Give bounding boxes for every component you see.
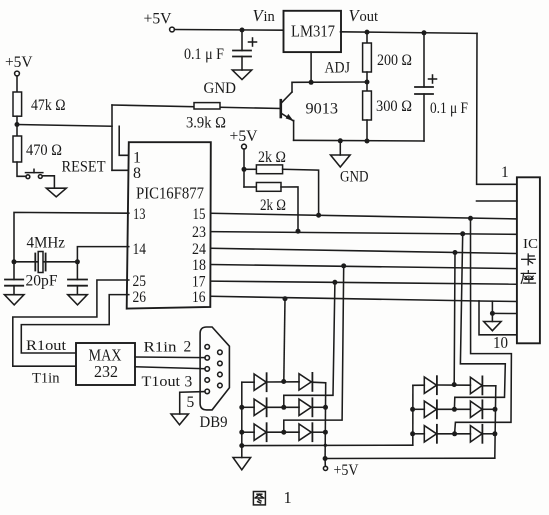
wire line15 wrap to right diode row3 xyxy=(455,218,512,433)
wire vertical B to pin1 xyxy=(119,126,129,155)
hanzi 座 xyxy=(521,271,535,284)
svg-text:9013: 9013 xyxy=(306,101,339,118)
node xyxy=(12,259,17,264)
wire left rail xyxy=(412,385,414,445)
wire xyxy=(17,162,26,176)
node xyxy=(490,311,495,316)
svg-text:17: 17 xyxy=(192,274,206,291)
node xyxy=(332,280,337,285)
node xyxy=(242,167,247,172)
wire row1 xyxy=(413,384,424,386)
diode D1 xyxy=(254,374,266,390)
wire Vout rail xyxy=(341,32,478,34)
connector J2 DB9 xyxy=(200,327,229,410)
ic U3 MAX232 xyxy=(76,343,135,385)
node xyxy=(281,405,286,410)
svg-text:1: 1 xyxy=(284,488,292,507)
wire row3 xyxy=(413,433,425,435)
svg-text:in: in xyxy=(264,9,276,25)
diode D7 xyxy=(424,377,436,393)
node xyxy=(460,231,465,236)
svg-text:15: 15 xyxy=(193,206,206,223)
diode D5 xyxy=(254,424,266,440)
wire line pin18 xyxy=(211,265,517,269)
resistor R5 300Ω xyxy=(363,91,372,120)
wire pin16 to socket xyxy=(479,300,517,303)
wire emitter ground rail xyxy=(294,139,424,142)
wire row3 xyxy=(242,431,254,433)
hanzi 卡 xyxy=(522,254,536,265)
svg-text:14: 14 xyxy=(133,241,147,258)
svg-text:3.9k Ω: 3.9k Ω xyxy=(186,115,226,132)
node xyxy=(452,431,457,436)
wire pin14 xyxy=(77,247,128,262)
resistor R3 3.9kΩ xyxy=(194,103,220,109)
ground xyxy=(171,414,188,425)
svg-text:T1out: T1out xyxy=(142,374,181,390)
node crossing blob xyxy=(324,444,327,447)
diode D2 xyxy=(299,374,311,390)
svg-text:2: 2 xyxy=(184,339,192,356)
node xyxy=(452,382,457,387)
svg-text:GND: GND xyxy=(204,80,237,97)
node xyxy=(323,405,328,410)
node xyxy=(75,259,80,264)
svg-text:IC: IC xyxy=(523,237,538,252)
wire line23 wrap to right diode row2 xyxy=(454,234,505,409)
svg-text:0.1 μ F: 0.1 μ F xyxy=(430,100,468,117)
diode D4 xyxy=(299,399,311,415)
svg-text:5: 5 xyxy=(187,394,195,411)
node xyxy=(492,431,497,436)
wire left rail xyxy=(241,382,243,445)
node xyxy=(410,407,415,412)
svg-text:232: 232 xyxy=(94,362,118,381)
wire to socket gnd pin xyxy=(492,312,517,314)
wire row2 xyxy=(413,408,425,410)
svg-text:16: 16 xyxy=(192,289,206,306)
node xyxy=(239,443,244,448)
ground xyxy=(4,295,24,305)
node xyxy=(323,430,328,435)
svg-text:ADJ: ADJ xyxy=(325,60,351,77)
svg-text:25: 25 xyxy=(133,273,147,290)
svg-text:23: 23 xyxy=(192,224,206,241)
node junction xyxy=(15,122,20,127)
diode D10 xyxy=(470,401,482,417)
svg-text:LM317: LM317 xyxy=(291,22,335,41)
wire row1 xyxy=(242,381,254,383)
wire line17 wrap to left diode row2 xyxy=(284,282,335,407)
ground xyxy=(46,188,66,197)
wire crystal net xyxy=(14,261,77,263)
svg-text:10: 10 xyxy=(493,333,508,352)
node xyxy=(468,216,473,221)
node xyxy=(410,431,415,436)
svg-text:8: 8 xyxy=(133,165,141,182)
ground xyxy=(491,313,493,321)
svg-text:1: 1 xyxy=(133,150,141,167)
wire DB9 pin5 to ground xyxy=(180,392,205,414)
node xyxy=(240,28,245,33)
svg-text:2k Ω: 2k Ω xyxy=(258,149,286,166)
node ADJ junction xyxy=(365,80,370,85)
diode D9 xyxy=(424,401,436,417)
wire xyxy=(42,176,54,188)
node xyxy=(341,263,346,268)
svg-text:18: 18 xyxy=(192,257,206,274)
node +5V terminal bottom xyxy=(324,459,326,467)
wire gnd tee xyxy=(491,301,493,313)
node xyxy=(323,456,328,461)
wire line16 drop to left diode row1 xyxy=(284,299,285,382)
svg-text:2k Ω: 2k Ω xyxy=(260,197,286,214)
node xyxy=(239,430,244,435)
node xyxy=(281,430,286,435)
wire line24 drop to right diode row1 xyxy=(453,253,456,385)
crystal X1 4MHz xyxy=(34,254,36,271)
diode D8 xyxy=(470,377,482,393)
switch S1 RESET xyxy=(26,175,30,179)
wire Vin xyxy=(174,29,283,32)
wire xyxy=(243,149,245,187)
svg-text:PIC16F877: PIC16F877 xyxy=(136,184,204,203)
wire vertical A to pin8 and 3.9k xyxy=(111,105,113,170)
node xyxy=(316,213,321,218)
wire crystal cap stubs xyxy=(13,262,15,280)
svg-text:3: 3 xyxy=(185,373,193,390)
node xyxy=(493,407,498,412)
svg-text:26: 26 xyxy=(133,289,147,306)
node xyxy=(309,80,314,85)
wire right rail xyxy=(324,383,327,459)
svg-text:+5V: +5V xyxy=(230,128,258,145)
wire line pin16 xyxy=(211,296,479,301)
wire 3.9k net to transistor base xyxy=(112,105,281,109)
wire ADJ xyxy=(292,81,367,83)
svg-text:+5V: +5V xyxy=(334,462,360,479)
node xyxy=(239,405,244,410)
svg-text:470 Ω: 470 Ω xyxy=(26,142,62,159)
capacitor C2 0.1uF xyxy=(423,33,425,87)
wire socket pin2 stub xyxy=(477,200,517,202)
wire xyxy=(283,169,319,215)
svg-text:GND: GND xyxy=(340,169,369,186)
wire row2 xyxy=(242,406,254,408)
ground xyxy=(338,138,343,143)
svg-text:13: 13 xyxy=(133,206,146,223)
diode D6 xyxy=(299,424,311,440)
wire line pin23 xyxy=(211,232,517,235)
node xyxy=(296,229,301,234)
node xyxy=(452,407,457,412)
capacitor C3 20pF xyxy=(5,279,23,281)
transistor Q1 9013 xyxy=(279,100,282,117)
svg-text:RESET: RESET xyxy=(62,158,106,175)
wire xyxy=(16,116,18,136)
wire xyxy=(281,187,298,231)
resistor R4 200Ω xyxy=(366,32,368,43)
ground xyxy=(232,70,251,80)
ground xyxy=(241,446,243,458)
diode D3 xyxy=(254,399,266,415)
svg-text:out: out xyxy=(360,9,379,25)
resistor R1 47kΩ xyxy=(13,92,22,116)
diode D11 xyxy=(424,426,436,442)
node xyxy=(283,296,288,301)
resistor R6 2kΩ xyxy=(244,168,256,170)
resistor R2 470Ω xyxy=(13,136,22,162)
node xyxy=(453,250,458,255)
wire R1in xyxy=(135,356,205,359)
wire line18 wrap to left diode row3 xyxy=(284,266,344,432)
svg-text:4MHz: 4MHz xyxy=(27,235,66,252)
svg-text:0.1 μ F: 0.1 μ F xyxy=(184,46,224,63)
wire +5V rail xyxy=(325,457,495,459)
svg-text:R1in: R1in xyxy=(144,340,178,356)
wire xyxy=(16,76,18,92)
capacitor C4 20pF xyxy=(68,279,87,281)
wire right rail xyxy=(495,386,496,458)
diode D12 xyxy=(470,426,482,442)
svg-text:T1in: T1in xyxy=(32,371,60,387)
node xyxy=(365,30,370,35)
wire pin26 to R1out xyxy=(21,295,129,353)
svg-text:200 Ω: 200 Ω xyxy=(377,52,412,69)
wire pin25 to T1in xyxy=(13,280,129,366)
svg-text:R1out: R1out xyxy=(26,338,67,354)
wire down to IC socket pin1 xyxy=(477,33,517,184)
regulator U1 LM317 xyxy=(284,11,342,52)
svg-text:1: 1 xyxy=(501,164,509,181)
node xyxy=(365,139,370,144)
svg-text:20pF: 20pF xyxy=(26,273,58,290)
svg-text:DB9: DB9 xyxy=(200,414,228,431)
wire line pin17 xyxy=(211,281,517,284)
connector J1 IC card socket xyxy=(517,177,540,343)
hanzi 图 xyxy=(253,492,265,505)
wire line pin24 xyxy=(211,248,517,253)
wire line pin15 xyxy=(211,213,517,219)
svg-text:+5V: +5V xyxy=(144,11,172,28)
wire T1out xyxy=(135,367,205,369)
capacitor C1 0.1uF xyxy=(241,30,243,51)
wire wrap to socket pin10 xyxy=(479,301,517,335)
svg-text:+5V: +5V xyxy=(5,54,33,71)
resistor R7 2kΩ xyxy=(244,186,256,188)
wire pin13 xyxy=(14,212,129,261)
node xyxy=(281,379,286,384)
svg-text:300 Ω: 300 Ω xyxy=(376,98,412,115)
svg-text:24: 24 xyxy=(192,241,206,258)
svg-text:47k Ω: 47k Ω xyxy=(31,97,66,114)
wire RESET net xyxy=(17,125,112,127)
mcu U2 PIC16F877 xyxy=(127,142,211,308)
ground xyxy=(68,295,88,305)
wire gnd rail to right group xyxy=(242,444,413,446)
node xyxy=(422,30,427,35)
